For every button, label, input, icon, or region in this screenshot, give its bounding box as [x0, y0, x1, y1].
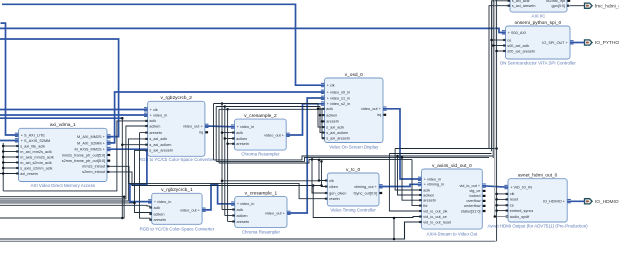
- wire v_cresample_1.video_out to v_osd video_s1_in: [287, 98, 325, 213]
- svg-text:aclk: aclk: [236, 131, 243, 135]
- wire trio vert 2: [215, 107, 217, 162]
- node junction: [492, 44, 495, 47]
- svg-text:s2mm_frame_ptr_out[5:0]: s2mm_frame_ptr_out[5:0]: [62, 159, 105, 163]
- wire M_AXI_MM2S out via top-left: [0, 39, 119, 137]
- svg-text:AXI Video Direct Memory Access: AXI Video Direct Memory Access: [31, 183, 96, 188]
- svg-text:axi_resetn: axi_resetn: [20, 172, 38, 176]
- svg-text:v_cresample_1: v_cresample_1: [245, 190, 278, 196]
- node junction: [224, 105, 227, 108]
- node tee at y118: [121, 117, 124, 120]
- wire IO_SPI_OUT to port: [570, 42, 585, 44]
- svg-text:video_out +: video_out +: [265, 211, 286, 215]
- wire vert xE down to bottom return: [496, 0, 498, 241]
- wire axi4s aclk feed: [395, 149, 421, 191]
- wire gray vert to avnet audio_spdif: [495, 0, 508, 217]
- wire trio top 2: [216, 106, 320, 108]
- node junction: [133, 202, 136, 205]
- node junction: [312, 184, 315, 187]
- svg-text:status[31:0]: status[31:0]: [461, 209, 481, 213]
- node junction: [401, 156, 404, 159]
- node junction: [221, 102, 224, 105]
- wire trio top 1: [214, 103, 319, 105]
- node junction: [321, 120, 324, 123]
- wire to osd aclk: [318, 104, 325, 109]
- svg-text:s_axi_aclken: s_axi_aclken: [149, 143, 171, 147]
- node junction: [226, 143, 229, 146]
- node junction: [2, 161, 4, 164]
- port IO_PYTHON (clipped): [585, 40, 619, 46]
- svg-text:+ video_s1_in: + video_s1_in: [327, 96, 351, 100]
- svg-text:v_osd_0: v_osd_0: [345, 72, 363, 78]
- wire axi4s vid_io_out_clk feed: [389, 154, 421, 212]
- node junction: [318, 179, 321, 182]
- node junction: [495, 198, 498, 201]
- block v_osd_0: [321, 72, 387, 150]
- wire y180.8 into vtc clk: [222, 180, 319, 182]
- svg-text:mm2s_introut: mm2s_introut: [82, 165, 106, 169]
- svg-text:aclken: aclken: [236, 137, 247, 141]
- svg-text:aclken: aclken: [237, 214, 248, 218]
- svg-text:m_axis_mm2s_aclk: m_axis_mm2s_aclk: [20, 155, 53, 159]
- svg-text:video_out +: video_out +: [183, 124, 204, 128]
- wire long net L1: [214, 156, 494, 160]
- wire spi ce feed: [492, 39, 506, 41]
- wire left clk bus vertical: [2, 143, 4, 191]
- wire iic s_axi_aclk down: [492, 1, 511, 151]
- node junction: [320, 184, 323, 187]
- wire to osd s_axi_aclk: [318, 109, 325, 127]
- svg-text:onsemi_python_spi_0: onsemi_python_spi_0: [514, 20, 561, 26]
- svg-text:aclken: aclken: [423, 193, 434, 197]
- wire v_cresample_2.video_out to v_osd video_s2_in: [286, 104, 324, 135]
- node junction: [2, 156, 4, 159]
- svg-text:clken: clken: [329, 185, 338, 189]
- svg-text:vid_io_out_reset: vid_io_out_reset: [423, 220, 452, 224]
- svg-text:ce: ce: [507, 38, 511, 42]
- svg-text:aclk: aclk: [237, 208, 244, 212]
- node junction: [495, 193, 498, 196]
- wire S00_AXI to onsemi_python_spi_0: [0, 28, 506, 32]
- wire bundle h5 to rgb1 aclk: [0, 204, 150, 207]
- svg-text:irq: irq: [199, 131, 203, 135]
- svg-text:audio_spdif: audio_spdif: [510, 215, 530, 219]
- svg-text:+ video_in: + video_in: [150, 113, 167, 117]
- svg-text:+ video_in: + video_in: [237, 125, 254, 129]
- wire vtc clk vertical: [319, 160, 327, 181]
- svg-text:Chroma Resampler: Chroma Resampler: [241, 152, 280, 157]
- svg-text:M_AXI_MM2S +: M_AXI_MM2S +: [77, 135, 106, 139]
- wire feed s_axi_lite_aclk: [3, 145, 18, 147]
- svg-text:+ vtiming_in: + vtiming_in: [424, 183, 444, 187]
- wire feed rgb2 s_axi_aresetn: [135, 150, 148, 203]
- wire axi4s aclken feed: [398, 156, 422, 195]
- wire to cre1 aclk: [222, 209, 235, 211]
- svg-text:ce: ce: [510, 204, 514, 208]
- svg-text:aclken: aclken: [149, 124, 160, 128]
- wire v_rgb2ycrcb_2.video_out to v_cresample_2.video_in: [205, 125, 235, 128]
- wire segment: [228, 143, 235, 145]
- svg-text:clk: clk: [329, 179, 334, 183]
- wire bundle h2: [0, 196, 124, 198]
- block v_axi4s_vid_out_0: [418, 163, 486, 237]
- svg-text:s_axi_aclk: s_axi_aclk: [326, 125, 344, 129]
- wire segment: [225, 215, 235, 217]
- wire trio top 3: [219, 108, 322, 110]
- svg-text:aclk: aclk: [326, 107, 333, 111]
- wire vtiming_out to vtiming_in: [379, 184, 422, 186]
- wire spi s00_axi_aresetn feed: [497, 50, 506, 52]
- svg-text:s_axis_s2mm_aclk: s_axis_s2mm_aclk: [20, 166, 52, 170]
- wire M_AXI_S2MM up to v_osd video_s0_in: [107, 92, 325, 143]
- svg-text:AXI IIC: AXI IIC: [532, 14, 546, 19]
- svg-text:v_cresample_2: v_cresample_2: [244, 113, 277, 119]
- svg-text:s_axi_lite_aclk: s_axi_lite_aclk: [20, 144, 45, 148]
- svg-text:Chroma Resampler: Chroma Resampler: [242, 229, 281, 234]
- svg-text:IO_PYTHON_C: IO_PYTHON_C: [595, 40, 619, 46]
- node junction: [226, 108, 229, 111]
- wire s2mm_introut route: [107, 172, 322, 186]
- svg-text:s_axi_aresetn: s_axi_aresetn: [512, 4, 536, 8]
- svg-text:s_axi_aclk: s_axi_aclk: [512, 0, 530, 3]
- wire clk feed to v_rgb2ycrcb_2: [0, 109, 148, 111]
- wire cre vertical xC3: [227, 109, 229, 221]
- svg-text:+ VID_IO_IN: + VID_IO_IN: [510, 186, 532, 190]
- node junction: [393, 238, 396, 241]
- wire bundle h6 up to h2: [0, 197, 124, 218]
- node junction: [121, 143, 124, 146]
- node junction: [2, 150, 4, 153]
- block v_rgb2ycrcb_1: [140, 187, 215, 231]
- svg-text:aresetn: aresetn: [423, 199, 436, 203]
- svg-text:aresetn: aresetn: [154, 218, 167, 222]
- svg-text:+ S00_AXI: + S00_AXI: [508, 31, 526, 35]
- svg-text:aresetn: aresetn: [149, 131, 162, 135]
- svg-text:s_axi_aresetn: s_axi_aresetn: [326, 137, 350, 141]
- wire vid_io_out_ce net: [313, 186, 421, 218]
- node junction: [2, 167, 4, 170]
- node junction: [221, 131, 224, 134]
- node junction: [320, 160, 323, 163]
- svg-text:vid_io_out_clk: vid_io_out_clk: [423, 209, 447, 213]
- svg-text:locked: locked: [470, 194, 481, 198]
- wire bundle h4 to rgb1 aclken: [0, 203, 152, 213]
- svg-text:+ clk: + clk: [327, 84, 335, 88]
- svg-text:m_axi_mm2s_aclk: m_axi_mm2s_aclk: [20, 150, 52, 154]
- wire vid_io_out to VID_IO_IN: [482, 186, 508, 187]
- wire long net y153.5: [389, 153, 491, 155]
- svg-text:Avnet HDMI Output (for ADV7511: Avnet HDMI Output (for ADV7511) (Pre-Pro…: [488, 223, 589, 228]
- svg-text:s00_axi_aresetn: s00_axi_aresetn: [507, 49, 535, 53]
- svg-text:reset: reset: [510, 198, 519, 202]
- svg-text:fsync_out[0:0]: fsync_out[0:0]: [354, 191, 378, 195]
- block avnet_hdmi_out_0: [488, 173, 589, 229]
- svg-text:v_tc_0: v_tc_0: [346, 167, 360, 173]
- svg-text:+ clk: + clk: [150, 108, 158, 112]
- wire segment: [225, 138, 235, 140]
- wire spi s00_axi_aclk feed: [493, 45, 505, 47]
- block v_cresample_1: [231, 190, 291, 234]
- wire to osd s_axi_aclken: [320, 115, 325, 133]
- node junction: [123, 195, 126, 198]
- node junction: [495, 50, 498, 53]
- wire mm2s_introut route to v_tc resetn side: [107, 166, 327, 198]
- wire avnet ce feed: [497, 204, 508, 206]
- svg-text:aclken: aclken: [154, 212, 165, 216]
- wire rgb2 aresetn stub: [140, 132, 148, 134]
- svg-text:vtiming_out +: vtiming_out +: [354, 185, 377, 189]
- svg-text:aresetn: aresetn: [237, 220, 250, 224]
- wire avnet embed_syncs feed: [497, 210, 508, 212]
- svg-text:overflow: overflow: [466, 199, 480, 203]
- wire long net y148.5: [395, 148, 497, 150]
- wire S_AXI_LITE to axi_vdma_1: [1, 23, 19, 135]
- wire v_osd video_out to axi4s video_in: [383, 109, 422, 179]
- wire gpo to fmc_hdmi port: [570, 5, 585, 7]
- svg-text:M_AXI_S2MM +: M_AXI_S2MM +: [77, 141, 106, 145]
- port fmc_hdmi (clipped): [585, 3, 619, 9]
- wire axi4s fid feed: [412, 159, 422, 205]
- svg-text:underflow: underflow: [464, 204, 481, 208]
- svg-text:iic2intc_irpt: iic2intc_irpt: [546, 0, 566, 3]
- wire cre vertical xC2: [224, 107, 226, 216]
- wire vtc gen_clken vertical: [312, 159, 327, 193]
- wire bundle h3 to rgb2 aclken: [0, 126, 148, 199]
- svg-text:AXI4-Stream to Video Out: AXI4-Stream to Video Out: [427, 231, 478, 236]
- wire feed rgb2 s_axi_aclken: [122, 144, 147, 146]
- svg-text:s_axi_aclken: s_axi_aclken: [326, 131, 348, 135]
- wire net along y118 to long vertical: [0, 117, 122, 119]
- svg-text:+ video_in: + video_in: [424, 177, 441, 181]
- svg-text:vid_io_out_ce: vid_io_out_ce: [423, 215, 446, 219]
- svg-text:mm2s_frame_ptr_out[5:0]: mm2s_frame_ptr_out[5:0]: [62, 153, 105, 157]
- node junction: [224, 137, 227, 140]
- svg-text:IO_HDMIO +: IO_HDMIO +: [543, 200, 566, 204]
- wire avnet clk feed: [497, 193, 508, 195]
- block axi_vdma_1: [15, 122, 111, 188]
- svg-text:s_axi_aclk: s_axi_aclk: [149, 137, 167, 141]
- node junction: [317, 108, 320, 111]
- wire feed m_axis_mm2s_aclk: [3, 156, 18, 158]
- node junction: [396, 155, 399, 158]
- wire avnet reset feed: [497, 198, 508, 200]
- svg-text:IO_HDMIO: IO_HDMIO: [595, 199, 619, 205]
- wire video_in feed to v_rgb2ycrcb_2: [0, 114, 148, 116]
- node junction: [311, 158, 314, 161]
- svg-text:fmc_hdmi_ca: fmc_hdmi_ca: [595, 3, 619, 9]
- svg-text:aresetn: aresetn: [326, 120, 339, 124]
- node junction: [121, 217, 124, 220]
- wire axi4s aresetn feed: [402, 157, 422, 200]
- block v_rgb2ycrcb_2: [139, 95, 214, 162]
- svg-text:v_axi4s_vid_out_0: v_axi4s_vid_out_0: [432, 163, 472, 169]
- wire iic s_axi_aresetn down: [489, 6, 510, 149]
- svg-text:aresetn: aresetn: [236, 142, 249, 146]
- wire cre vertical xC1: [221, 104, 223, 210]
- svg-text:video_out +: video_out +: [264, 133, 285, 137]
- svg-text:video_out +: video_out +: [361, 107, 382, 111]
- svg-text:video_out +: video_out +: [180, 208, 201, 212]
- wire IO_HDMIO to port: [567, 200, 584, 202]
- block v_tc_0: [325, 167, 383, 213]
- wire bottom return net: [0, 240, 496, 242]
- svg-text:s00_axi_aclk: s00_axi_aclk: [507, 44, 529, 48]
- wire axi_resetn feed from left edge: [0, 173, 19, 175]
- svg-text:IO_SPI_OUT +: IO_SPI_OUT +: [542, 41, 568, 45]
- node junction: [490, 39, 493, 42]
- wire net to v_osd clk (top route): [2, 4, 325, 85]
- svg-text:aclk: aclk: [149, 119, 156, 123]
- svg-text:axi_vdma_1: axi_vdma_1: [50, 122, 76, 128]
- svg-text:avnet_hdmi_out_0: avnet_hdmi_out_0: [518, 173, 558, 179]
- wire v_rgb2ycrcb_1.video_out to v_cresample_1.video_in: [202, 185, 235, 210]
- wire long vertical to rgb1 aresetn: [140, 133, 151, 219]
- svg-text:+ video_s2_in: + video_s2_in: [327, 102, 351, 106]
- svg-text:gen_clken: gen_clken: [329, 191, 346, 195]
- wire vtc clken vertical: [322, 161, 328, 186]
- wire vert xC: [492, 0, 494, 158]
- wire feed m_axi_s2mm_aclk: [3, 162, 18, 164]
- node junction: [494, 215, 497, 218]
- wire vid_io_out_reset long net: [0, 222, 422, 239]
- node junction: [2, 172, 4, 175]
- wire trio vert 3: [218, 109, 220, 163]
- wire feed s_axis_s2mm_aclk: [3, 167, 18, 169]
- wire segment: [228, 221, 235, 223]
- wire bundle h3b to rgb2 s_axi_aclk: [0, 139, 148, 201]
- svg-text:s2mm_introut: s2mm_introut: [82, 170, 106, 174]
- block axi_iic_0 (clipped at top): [508, 0, 571, 12]
- node junction: [495, 209, 498, 212]
- svg-text:M_AXIS_MM2S +: M_AXIS_MM2S +: [75, 148, 106, 152]
- svg-text:+ video_s0_in: + video_s0_in: [327, 90, 351, 94]
- node junction: [318, 159, 321, 162]
- wire to cre2 aclk: [222, 132, 235, 134]
- svg-text:irq: irq: [377, 113, 381, 117]
- svg-text:fid: fid: [423, 204, 427, 208]
- port IO_HDMIO: [585, 199, 619, 205]
- wire S_AXIS_S2MM to axi_vdma_1: [0, 140, 19, 142]
- node junction: [319, 114, 322, 117]
- wire long net L3: [219, 159, 412, 163]
- node junction: [2, 145, 4, 148]
- svg-text:embed_syncs: embed_syncs: [510, 209, 534, 213]
- svg-text:ON Semiconductor VITA SPI Cont: ON Semiconductor VITA SPI Controller: [500, 60, 577, 65]
- wire bundle h1 to rgb2 aclk: [3, 121, 147, 191]
- svg-text:s_axi_aresetn: s_axi_aresetn: [149, 149, 173, 153]
- svg-text:aclk: aclk: [154, 206, 161, 210]
- svg-text:gpo[0:0]: gpo[0:0]: [551, 4, 565, 8]
- node junction: [221, 180, 224, 183]
- wire long net L2: [216, 157, 489, 161]
- svg-text:Video Timing Controller: Video Timing Controller: [330, 207, 376, 212]
- svg-text:vtg_ce: vtg_ce: [469, 189, 480, 193]
- svg-text:m_axi_s2mm_aclk: m_axi_s2mm_aclk: [20, 161, 52, 165]
- svg-text:RGB to YC/Cb Color-Space Conve: RGB to YC/Cb Color-Space Converter: [140, 226, 215, 231]
- svg-text:+ video_in: + video_in: [154, 200, 171, 204]
- node junction: [495, 204, 498, 207]
- svg-text:v_rgb2ycrcb_1: v_rgb2ycrcb_1: [161, 187, 193, 193]
- svg-text:+ S_AXI_LITE: + S_AXI_LITE: [21, 133, 46, 137]
- node junction: [495, 147, 498, 150]
- svg-text:aclk: aclk: [423, 188, 430, 192]
- svg-text:RGB to YC/Cb Color-Space Conve: RGB to YC/Cb Color-Space Converter: [139, 157, 214, 162]
- wire vert x394: [393, 218, 395, 239]
- svg-text:clk: clk: [510, 192, 515, 196]
- svg-text:v_rgb2ycrcb_2: v_rgb2ycrcb_2: [160, 95, 192, 101]
- svg-text:resetn: resetn: [329, 197, 340, 201]
- wire feed m_axi_mm2s_aclk: [3, 151, 18, 153]
- wire to osd aclken: [320, 107, 325, 116]
- svg-text:+ video_in: + video_in: [237, 202, 254, 206]
- wire trio vert 1: [213, 104, 215, 160]
- wire to osd aresetn: [322, 109, 325, 121]
- wire long vertical A: [121, 118, 123, 218]
- svg-text:aclken: aclken: [326, 113, 337, 117]
- wire to osd s_axi_aresetn: [322, 121, 325, 138]
- wire M_AXIS_MM2S to v_rgb2ycrcb_1 video_in: [107, 149, 152, 201]
- node junction: [393, 217, 396, 220]
- svg-text:Video On Screen Display: Video On Screen Display: [329, 145, 379, 150]
- svg-text:vid_io_out +: vid_io_out +: [460, 184, 481, 188]
- block v_cresample_2: [231, 113, 290, 157]
- svg-text:+ S_AXIS_S2MM: + S_AXIS_S2MM: [21, 139, 51, 143]
- block onsemi_python_spi_0: [500, 20, 577, 66]
